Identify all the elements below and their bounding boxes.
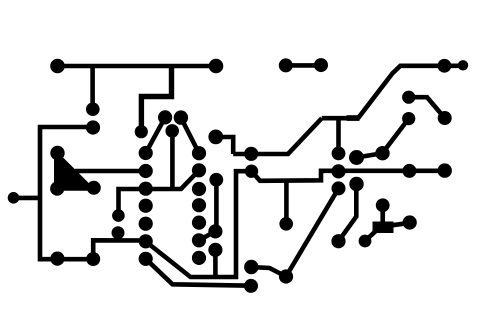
pad IC pin 14: [192, 146, 206, 160]
pad IC pin 2: [139, 164, 153, 178]
pad B1: [279, 58, 293, 72]
pad E5: [402, 91, 415, 104]
pad IC pin 9: [192, 233, 206, 247]
pad I2: [112, 226, 125, 239]
pad N4: [403, 215, 417, 229]
pad J3: [86, 252, 100, 266]
pad H3: [208, 224, 222, 238]
wire rail L-drop to pad D1: [141, 66, 171, 132]
pad E7: [402, 112, 415, 125]
wire pad B1-B2 link: [286, 63, 321, 68]
wire bottom row up to DIP pad: [93, 240, 146, 259]
node thick block: [373, 222, 394, 234]
wire F4 left-down-around to DIP pad: [147, 171, 252, 277]
pad G1: [332, 181, 346, 195]
wire pad E3 to E4: [357, 153, 383, 157]
wire N3 drop to block: [380, 205, 385, 224]
pad C1: [438, 59, 452, 73]
pad F4: [245, 165, 258, 178]
pad N2: [359, 235, 372, 248]
pad J2: [50, 252, 64, 266]
pad IC pin 6: [139, 234, 153, 248]
wire y188 row with corner to I1: [119, 170, 200, 215]
pad F2: [438, 163, 452, 177]
pad E1: [244, 147, 258, 161]
pad K1 triangle top: [50, 146, 64, 160]
pad K2 triangle bottom-left: [50, 182, 64, 196]
wire G2 down diagonal to N1: [339, 184, 357, 241]
pad E2: [332, 147, 346, 161]
pad N3: [376, 198, 390, 212]
wire DIP pad diagonal to H3: [199, 231, 216, 240]
pad D2: [158, 110, 172, 124]
pad M2: [279, 269, 293, 283]
pad D1: [135, 125, 148, 138]
wire rail drop to pad A3: [90, 66, 95, 109]
pad A1: [50, 59, 65, 74]
wire pad J1 stub: [14, 196, 41, 201]
wire DIP pad to M3: [146, 259, 251, 286]
wire mid horizontal F4 to F2: [252, 171, 445, 181]
pad A4: [86, 120, 100, 134]
pad IC pin 5: [139, 217, 153, 231]
pad M1: [244, 260, 258, 274]
wire block to N4: [392, 223, 410, 226]
wire branch down to pad H1: [284, 181, 289, 224]
wire pad H2 to H3: [214, 180, 219, 232]
pad M3: [244, 279, 258, 293]
pad IC pin 10: [192, 216, 206, 230]
wire triangle to DIP pad: [75, 169, 146, 174]
wire diagonal G1 to M2: [286, 188, 339, 276]
wire M1 to M2: [251, 267, 286, 277]
pad D5: [208, 130, 223, 145]
pad IC pin 4: [139, 199, 153, 213]
pad F3: [331, 164, 345, 178]
pad A3: [86, 102, 100, 116]
wire diagonal E4 to E7: [383, 119, 409, 153]
pad H4: [208, 243, 222, 257]
pad IC pin 12: [192, 182, 206, 196]
wire top rail: [55, 64, 218, 69]
pad D4: [165, 124, 179, 138]
wire pad E5 to E6: [409, 97, 445, 118]
pad A2: [209, 59, 224, 74]
pad IC pin 13: [192, 163, 206, 177]
pad G2: [349, 177, 363, 191]
wire top-right bend C2-C1-diagonal: [358, 66, 463, 119]
pad N1: [331, 234, 345, 248]
pad D3: [174, 110, 188, 124]
wire pad D5 jog to E1: [216, 137, 233, 154]
wire diagonal D2 to DIP: [146, 117, 165, 153]
wire pad H4 drop: [213, 250, 218, 277]
pad IC pin 1: [139, 146, 153, 160]
wire drop to pad E2: [336, 118, 341, 153]
wire block to N2: [365, 231, 376, 241]
pad H1: [279, 217, 293, 231]
pad K3 triangle bottom-right: [87, 181, 101, 195]
wire diagonal D3 to DIP: [181, 118, 199, 154]
transistor triangle: [54, 149, 97, 191]
wire pad A4 left and down to bottom row: [40, 127, 93, 259]
wire long diagonal E1 to y118: [233, 118, 322, 154]
wire pad D4 drop: [170, 131, 175, 189]
pad C2: [458, 60, 468, 70]
pad J1: [8, 192, 20, 204]
pad E6: [438, 111, 452, 125]
pad IC pin 11: [192, 198, 206, 212]
wire junction thick segment: [347, 115, 360, 121]
pad F1: [402, 164, 416, 178]
pad E3: [349, 150, 364, 165]
pad H2: [209, 173, 223, 187]
pad I1: [112, 209, 125, 222]
pad IC pin 3: [139, 182, 153, 196]
pad B2: [314, 58, 328, 72]
wire y118 horizontal: [322, 116, 359, 121]
pad IC pin 7: [139, 252, 153, 266]
pad E4: [375, 146, 389, 160]
pad IC pin 8: [192, 251, 206, 265]
